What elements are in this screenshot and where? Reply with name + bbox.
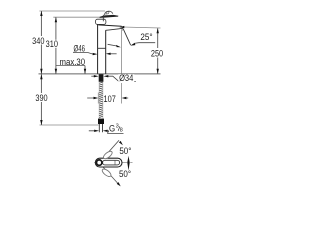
svg-text:Ø34: Ø34 <box>119 72 134 83</box>
svg-text:50°: 50° <box>119 145 131 156</box>
svg-text:max.30: max.30 <box>60 56 86 67</box>
svg-text:8: 8 <box>120 127 123 133</box>
svg-text:310: 310 <box>46 39 59 49</box>
svg-text:107: 107 <box>104 95 117 105</box>
svg-text:25°: 25° <box>140 32 152 43</box>
svg-text:340: 340 <box>32 36 45 46</box>
svg-text:250: 250 <box>151 49 164 59</box>
svg-text:G: G <box>109 123 115 134</box>
svg-text:Ø46: Ø46 <box>74 43 86 54</box>
svg-text:50°: 50° <box>119 169 131 180</box>
svg-text:3: 3 <box>116 124 119 130</box>
svg-text:390: 390 <box>35 93 48 103</box>
